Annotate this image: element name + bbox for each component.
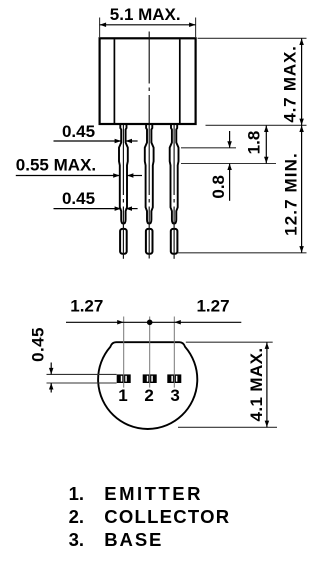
lead 3 (base) upper section [170, 124, 179, 224]
dimension line 4.7 MAX [301, 38, 303, 125]
leader tail 0.45 upper [126, 140, 138, 142]
dimension line 0.8 lower [229, 164, 231, 201]
pin 2 extension line [149, 317, 151, 388]
svg-text:5.1 MAX.: 5.1 MAX. [110, 5, 181, 24]
pin 3 extension line [173, 317, 175, 388]
svg-text:BASE: BASE [104, 529, 163, 550]
pin 1 extension line [123, 317, 125, 388]
leader line 0.55 [16, 175, 120, 177]
svg-text:4.7 MAX.: 4.7 MAX. [280, 45, 299, 122]
dimension line pin1-pin3 [124, 321, 175, 323]
svg-text:2.: 2. [69, 506, 84, 527]
dot terminator at pin 2 [147, 320, 153, 326]
extension line lead tips right [178, 252, 307, 254]
lead 1 (emitter) upper section [119, 124, 128, 224]
leader line 0.45 lower [54, 208, 122, 210]
dimension line 0.45 lower [50, 383, 52, 393]
svg-text:3: 3 [170, 386, 180, 405]
lead 3 (base) centre line [173, 125, 175, 259]
svg-text:0.8: 0.8 [209, 175, 228, 199]
svg-text:0.45: 0.45 [62, 189, 95, 208]
svg-text:1.27: 1.27 [196, 297, 229, 316]
svg-text:COLLECTOR: COLLECTOR [104, 506, 230, 527]
pin 1 pad (bottom view) [117, 374, 131, 383]
svg-text:1.: 1. [69, 483, 84, 504]
dimension line 1.27 left leader [66, 321, 124, 323]
dimension 5.1 MAX extension line left [99, 18, 101, 38]
lead 2 (collector) centre line [148, 32, 150, 259]
dimension line 4.1 MAX [266, 342, 268, 427]
svg-text:0.45: 0.45 [62, 122, 95, 141]
svg-text:3.: 3. [69, 529, 84, 550]
leader tail 0.45 lower [126, 208, 138, 210]
lead 2 (collector) upper section [145, 124, 154, 224]
dimension line 0.45 upper [50, 363, 52, 375]
svg-text:1: 1 [118, 386, 128, 405]
bottom view outline (flatted circle) [98, 342, 197, 429]
lead 1 (emitter) tip segment [120, 229, 127, 254]
dimension line 1.27 right leader [174, 321, 241, 323]
extension line body top right [198, 37, 307, 39]
svg-text:12.7 MIN.: 12.7 MIN. [282, 152, 301, 236]
dimension line 12.7 MIN [301, 125, 303, 253]
extension line pin1 top [47, 373, 117, 375]
body mould line right [179, 39, 181, 123]
leader tail 0.55 [127, 175, 142, 177]
extension line pin1 bottom [47, 382, 117, 384]
extension line A (bulge top) [181, 147, 236, 149]
dimension 5.1 MAX extension line right [195, 18, 197, 38]
svg-text:1.27: 1.27 [70, 297, 103, 316]
svg-text:0.45: 0.45 [28, 327, 47, 362]
lead 2 (collector) tip segment [146, 229, 153, 254]
pin 3 pad (bottom view) [167, 374, 181, 383]
pin 2 pad (bottom view) [143, 374, 157, 383]
dimension line 0.8 upper [229, 131, 231, 148]
svg-text:4.1 MAX.: 4.1 MAX. [247, 347, 266, 421]
extension line body bottom right [206, 124, 307, 126]
svg-text:EMITTER: EMITTER [104, 483, 203, 504]
extension line circle bottom right [178, 426, 277, 428]
lead 3 (base) tip segment [171, 229, 178, 254]
lead 1 (emitter) centre line [122, 125, 124, 259]
body mould line left [113, 39, 115, 123]
svg-text:2: 2 [144, 386, 154, 405]
extension line B (bulge bottom) [181, 163, 276, 165]
dimension line 5.1 MAX [100, 24, 196, 26]
extension line flat top right [186, 341, 273, 343]
package body outline (front view) [100, 38, 196, 124]
svg-text:1.8: 1.8 [244, 131, 263, 155]
svg-text:0.55 MAX.: 0.55 MAX. [16, 156, 96, 175]
dimension line 1.8 [265, 125, 267, 163]
leader line 0.45 upper [54, 140, 122, 142]
